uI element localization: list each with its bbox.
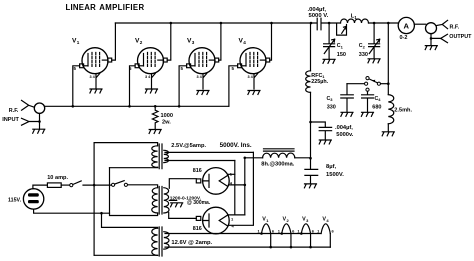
svg-text:816: 816 xyxy=(193,168,202,174)
svg-text:2w.: 2w. xyxy=(162,120,171,126)
svg-text:1: 1 xyxy=(77,40,80,45)
svg-text:10 amp.: 10 amp. xyxy=(47,175,68,181)
svg-text:3 4: 3 4 xyxy=(145,75,151,79)
svg-text:12.6V @ 2amp.: 12.6V @ 2amp. xyxy=(171,240,212,246)
svg-text:8h.@300ma.: 8h.@300ma. xyxy=(261,162,294,168)
svg-text:RFC: RFC xyxy=(311,73,322,79)
svg-text:2.5V.@5amp.: 2.5V.@5amp. xyxy=(171,143,206,149)
svg-text:680: 680 xyxy=(372,104,381,110)
svg-text:INPUT: INPUT xyxy=(2,117,19,123)
svg-text:OUTPUT: OUTPUT xyxy=(449,34,472,40)
svg-text:115V.: 115V. xyxy=(8,197,22,203)
svg-text:3 4: 3 4 xyxy=(197,75,203,79)
svg-text:1000: 1000 xyxy=(161,113,173,119)
svg-text:4: 4 xyxy=(243,40,246,45)
svg-text:3: 3 xyxy=(192,40,195,45)
svg-text:@ 300ma.: @ 300ma. xyxy=(187,200,211,206)
svg-text:LINEAR: LINEAR xyxy=(66,3,97,12)
svg-text:1500V.: 1500V. xyxy=(326,172,344,178)
svg-text:150: 150 xyxy=(337,52,346,58)
svg-text:AMPLIFIER: AMPLIFIER xyxy=(99,3,144,12)
svg-text:.004µf,: .004µf, xyxy=(335,125,353,131)
svg-text:8µf,: 8µf, xyxy=(326,164,336,170)
svg-text:3 4: 3 4 xyxy=(90,75,96,79)
svg-text:2: 2 xyxy=(140,40,143,45)
svg-text:0-2: 0-2 xyxy=(400,35,408,41)
svg-text:3 4: 3 4 xyxy=(248,75,254,79)
svg-text:R.F.: R.F. xyxy=(9,108,19,114)
svg-text:816: 816 xyxy=(193,226,202,232)
svg-text:225µh.: 225µh. xyxy=(311,79,328,85)
svg-text:5000v.: 5000v. xyxy=(336,132,353,138)
svg-text:330: 330 xyxy=(359,52,368,58)
svg-text:5000V. Ins.: 5000V. Ins. xyxy=(220,142,252,149)
svg-text:330: 330 xyxy=(327,104,336,110)
svg-text:A: A xyxy=(404,22,410,31)
svg-text:R.F.: R.F. xyxy=(450,24,460,30)
svg-text:5000 V.: 5000 V. xyxy=(309,13,329,19)
svg-text:2.5mh.: 2.5mh. xyxy=(394,107,412,113)
